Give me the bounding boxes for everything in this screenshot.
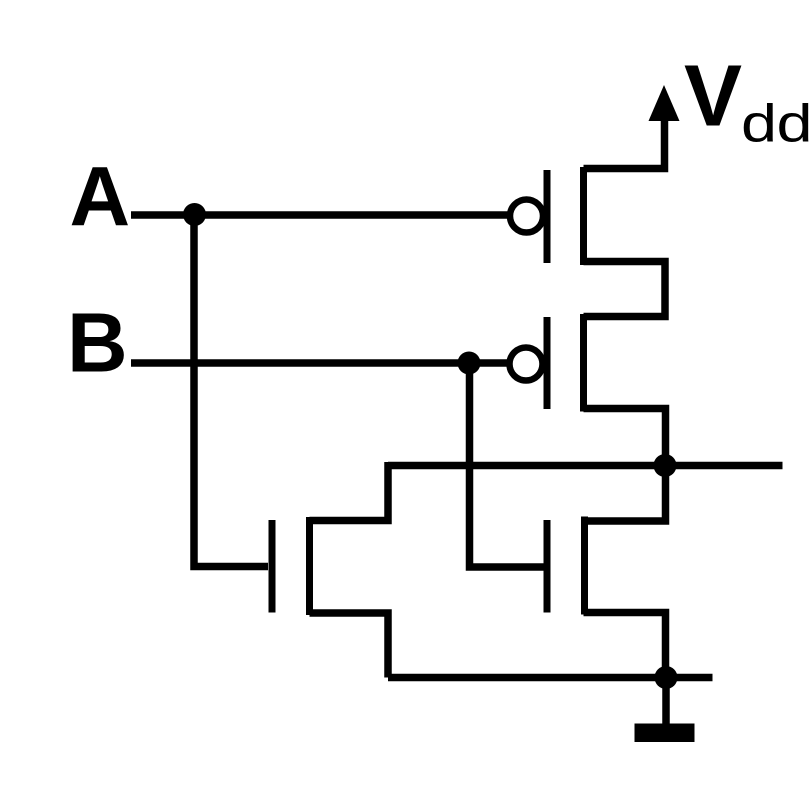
svg-text:B: B <box>67 296 128 390</box>
wire B vertical to M4 gate <box>470 363 545 567</box>
junction dot node B <box>458 352 481 375</box>
wire output node to M4 drain <box>584 466 666 522</box>
wire A horizontal <box>131 211 508 219</box>
Vdd arrowhead <box>649 85 680 121</box>
wire Vdd lead of M1 <box>584 118 665 169</box>
wire output horizontal <box>388 462 783 470</box>
wire B horizontal <box>131 359 508 367</box>
transistor M3 NMOS channel <box>306 517 313 615</box>
ground bar <box>635 724 695 743</box>
svg-text:V: V <box>684 48 742 145</box>
transistor M2 PMOS gate bubble <box>510 348 543 381</box>
wire A vertical to M3 gate <box>194 212 268 567</box>
transistor M1 PMOS channel <box>580 167 587 265</box>
wire M1 drain to M2 source <box>584 262 666 317</box>
junction dot ground node <box>655 666 678 689</box>
transistor M1 PMOS gate bar <box>544 170 551 263</box>
wire M4 source to ground rail <box>584 613 666 678</box>
wire M3 source to ground rail <box>310 613 389 678</box>
wire M2 drain to output node <box>584 409 666 466</box>
wire M3 drain to output line <box>310 462 389 521</box>
wire ground stub <box>662 678 670 725</box>
wire ground rail horizontal <box>388 674 713 682</box>
svg-text:A: A <box>70 150 131 244</box>
transistor M1 PMOS gate bubble <box>510 200 543 233</box>
svg-text:d: d <box>741 93 777 153</box>
transistor M2 PMOS channel <box>580 314 587 412</box>
svg-text:d: d <box>777 93 811 153</box>
transistor M2 PMOS gate bar <box>544 317 551 409</box>
transistor M4 NMOS channel <box>581 517 588 615</box>
transistor M4 NMOS gate bar <box>544 520 551 613</box>
junction dot node A <box>183 203 206 226</box>
junction dot output node <box>654 454 677 477</box>
transistor M3 NMOS gate bar <box>269 520 276 613</box>
